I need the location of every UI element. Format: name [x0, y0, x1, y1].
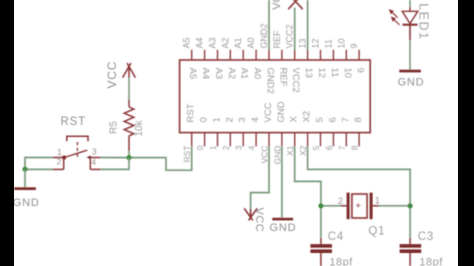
svg-text:X: X — [289, 116, 300, 123]
svg-text:10: 10 — [336, 38, 346, 48]
svg-text:A0: A0 — [246, 37, 256, 48]
svg-text:A0: A0 — [252, 68, 263, 80]
switch S1 pin 3 lead — [91, 157, 101, 159]
svg-text:1: 1 — [375, 195, 380, 205]
svg-text:13: 13 — [303, 68, 314, 79]
svg-text:4: 4 — [250, 117, 261, 122]
power symbol VCC (top, arrowhead cut at edge) — [288, 0, 302, 9]
wire X2 pin to crystal right node and C3 — [308, 146, 411, 238]
capacitor C3 bottom lead — [409, 253, 411, 266]
resistor R5 top lead — [128, 100, 130, 107]
U1 bottom pin leads — [192, 133, 359, 147]
junction node left — [22, 167, 27, 172]
svg-text:VCC: VCC — [253, 208, 265, 233]
svg-text:4: 4 — [91, 157, 96, 167]
svg-text:1: 1 — [212, 117, 223, 122]
wire junction down to switch bottom row — [100, 158, 129, 170]
svg-text:A3: A3 — [208, 37, 218, 48]
wire crystal pin 1 lead — [373, 205, 379, 207]
switch S1 pin 2 lead — [53, 168, 64, 170]
capacitor C4 bottom lead — [320, 253, 322, 266]
svg-text:3: 3 — [92, 147, 97, 157]
switch S1 pin 3 contact arrow — [86, 156, 90, 160]
svg-text:0: 0 — [199, 117, 210, 122]
svg-text:3: 3 — [237, 117, 248, 122]
svg-text:7: 7 — [340, 117, 351, 122]
junction node crystal left — [318, 203, 323, 208]
svg-text:2: 2 — [221, 145, 231, 150]
LED LED1 anode lead — [409, 7, 411, 11]
svg-text:REF: REF — [272, 30, 282, 49]
svg-text:6: 6 — [327, 117, 338, 122]
wire X1 pin to crystal left node and C4 — [295, 146, 321, 238]
crystal Q1 body box — [352, 194, 367, 218]
svg-text:7: 7 — [337, 145, 347, 150]
svg-text:6: 6 — [324, 145, 334, 150]
wire crystal pin 2 lead — [321, 205, 341, 207]
U1 bottom exterior pin labels RST 0 1 2 3 4 VCC GND X1 X2 5 6 7 8 — [182, 145, 359, 164]
capacitor C3 plates — [400, 244, 422, 248]
wire LED cathode to GND — [409, 40, 411, 70]
wire switch pin 3 to junction — [100, 157, 129, 159]
svg-text:A5: A5 — [187, 68, 198, 80]
svg-text:C4: C4 — [328, 231, 344, 243]
svg-text:4: 4 — [247, 145, 257, 150]
svg-text:A2: A2 — [220, 37, 230, 48]
svg-text:REF: REF — [277, 68, 288, 87]
power symbol VCC (down arrow) — [244, 208, 257, 220]
svg-text:RST: RST — [182, 146, 192, 163]
svg-text:LED1: LED1 — [416, 3, 430, 40]
svg-text:9: 9 — [355, 68, 366, 73]
capacitor C3 top lead — [409, 238, 411, 244]
svg-text:18pf: 18pf — [329, 256, 353, 266]
svg-text:A4: A4 — [200, 68, 211, 80]
svg-text:2: 2 — [338, 196, 343, 206]
wire RST net: junction to IC RST pin — [129, 146, 192, 170]
svg-text:Q1: Q1 — [368, 225, 385, 237]
svg-text:RST: RST — [186, 103, 197, 122]
svg-text:12: 12 — [316, 68, 327, 79]
svg-text:GND: GND — [272, 146, 282, 165]
LED LED1 light emission arrows — [390, 10, 400, 25]
wire pin 13 net to top edge — [307, 0, 309, 50]
U1 top pin leads — [192, 50, 359, 60]
switch S1 pins 1-2 tie bar — [63, 158, 65, 170]
svg-text:A1: A1 — [233, 37, 243, 48]
crystal Q1 left plate — [347, 193, 350, 220]
IC U1 body — [180, 60, 371, 133]
resistor R5 bottom lead — [128, 136, 130, 151]
U1 interior top pin names — [187, 68, 365, 94]
svg-text:VCC2: VCC2 — [285, 24, 295, 48]
svg-text:GND: GND — [13, 197, 40, 209]
svg-text:VCC: VCC — [260, 146, 270, 164]
svg-text:VCC: VCC — [263, 102, 274, 122]
svg-text:2: 2 — [57, 157, 62, 167]
svg-text:A5: A5 — [182, 37, 192, 48]
svg-text:A2: A2 — [226, 68, 237, 80]
switch S1 pins 3-4 tie bar — [89, 158, 91, 170]
svg-text:9: 9 — [349, 43, 359, 48]
svg-text:13: 13 — [298, 38, 308, 48]
resistor R5 zigzag — [124, 107, 134, 136]
svg-text:11: 11 — [329, 68, 340, 78]
svg-text:5: 5 — [311, 145, 321, 150]
svg-text:GND: GND — [276, 101, 287, 122]
LED cathode lead — [409, 25, 411, 40]
capacitor C4 top lead — [320, 238, 322, 244]
ground symbol mid — [272, 218, 293, 221]
wire LED anode from top edge — [409, 0, 411, 7]
wire GND2 net to top edge — [268, 0, 270, 50]
svg-text:0: 0 — [195, 145, 205, 150]
capacitor C4 plates — [310, 244, 332, 248]
wire IC GND pin to ground — [281, 146, 283, 218]
svg-text:3: 3 — [234, 145, 244, 150]
svg-text:GND: GND — [398, 76, 425, 88]
wire switch pin2 row to left junction — [25, 168, 53, 170]
svg-text:VCC: VCC — [271, 0, 283, 10]
wire R5 to junction — [128, 151, 130, 158]
svg-text:8: 8 — [353, 117, 364, 122]
switch S1 lever — [64, 150, 87, 157]
svg-text:X2: X2 — [298, 145, 308, 156]
svg-text:RST: RST — [61, 116, 86, 128]
wire VCC2 pin to VCC arrow — [294, 8, 296, 51]
wire left junction to GND — [24, 169, 26, 187]
svg-text:8: 8 — [350, 145, 360, 150]
svg-text:GND2: GND2 — [259, 23, 269, 48]
svg-text:11: 11 — [323, 39, 333, 48]
svg-text:A4: A4 — [195, 37, 205, 48]
junction node at R5 / switch / RST — [126, 155, 131, 160]
svg-text:C3: C3 — [418, 231, 434, 243]
svg-text:A3: A3 — [213, 68, 224, 80]
crystal Q1 right plate — [370, 193, 373, 220]
svg-text:GND: GND — [269, 222, 296, 234]
power symbol VCC above R5 — [123, 63, 136, 78]
ground symbol at LED — [399, 70, 421, 73]
svg-text:1: 1 — [57, 147, 62, 157]
svg-text:2: 2 — [224, 117, 235, 122]
switch S1 actuator dashed stem — [76, 142, 78, 157]
switch S1 pin 1 lead and contact dot — [53, 157, 64, 159]
wire switch pin1 row to left drop — [25, 158, 53, 170]
svg-text:X1: X1 — [285, 145, 295, 156]
svg-text:GND2: GND2 — [265, 68, 276, 94]
svg-text:VCC2: VCC2 — [290, 68, 301, 93]
svg-text:10k: 10k — [134, 119, 145, 136]
svg-text:18pf: 18pf — [419, 256, 443, 266]
svg-text:A1: A1 — [239, 68, 250, 80]
svg-text:R5: R5 — [109, 121, 120, 134]
LED LED1 cathode bar — [403, 24, 418, 26]
junction node crystal right — [408, 203, 413, 208]
svg-text:VCC: VCC — [105, 61, 119, 89]
svg-text:1: 1 — [208, 145, 218, 150]
switch S1 top bracket — [67, 136, 88, 141]
ground symbol bottom-left — [14, 187, 36, 190]
U1 top exterior pin labels A5 A4 A3 A2 A1 A0 GND2 REF VCC2 13 12 11 10 9 — [182, 23, 359, 48]
svg-text:X2: X2 — [302, 111, 313, 123]
U1 interior bottom pin names — [186, 101, 364, 122]
svg-text:5: 5 — [315, 117, 326, 122]
svg-text:12: 12 — [311, 38, 321, 48]
svg-text:10: 10 — [342, 68, 353, 79]
wire IC VCC pin to VCC symbol — [251, 146, 269, 209]
switch S1 pin 4 lead — [90, 168, 100, 170]
LED LED1 triangle — [402, 11, 418, 23]
wire VCC arrow to R5 — [128, 78, 130, 100]
crystal Q1 plus mark — [356, 203, 360, 207]
